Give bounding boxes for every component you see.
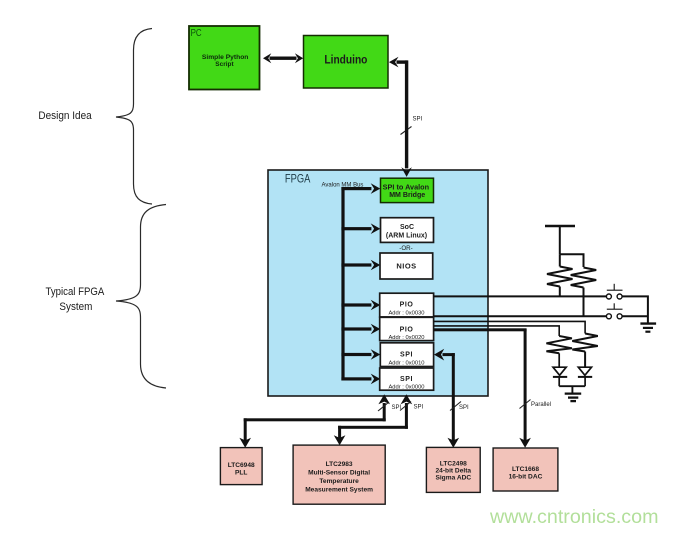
LED D2	[578, 367, 592, 386]
switch S2	[606, 303, 622, 319]
svg-text:24-bit Delta: 24-bit Delta	[436, 468, 472, 475]
svg-text:SPI: SPI	[400, 376, 413, 383]
wire PIO2 led1 line	[434, 326, 560, 336]
label SPI (ltc2498 line)	[459, 405, 469, 411]
SoC box	[381, 218, 434, 243]
bus branch to SoC	[341, 223, 380, 234]
svg-text:PIO: PIO	[400, 302, 414, 309]
svg-text:-OR-: -OR-	[399, 245, 412, 252]
svg-text:16-bit DAC: 16-bit DAC	[509, 474, 543, 481]
wire parallel PIO2 to LTC1668	[434, 328, 531, 448]
wire PIO1 bit1 line	[434, 315, 607, 317]
wire SPI2 to LTC6948	[239, 394, 390, 447]
LED D1	[553, 353, 567, 386]
switch S1	[606, 284, 622, 299]
SPI2 box Addr 0x0000	[380, 368, 434, 390]
wire PIO2 led2 line	[434, 321, 585, 333]
tick slash (ltc2983 line)	[400, 402, 411, 411]
svg-text:Measurement System: Measurement System	[305, 487, 373, 494]
svg-text:LTC2983: LTC2983	[326, 461, 353, 468]
svg-text:SPI: SPI	[459, 405, 469, 411]
svg-text:SPI: SPI	[414, 405, 424, 411]
label -OR-	[399, 245, 412, 252]
svg-text:Addr : 0x0010: Addr : 0x0010	[388, 360, 424, 366]
svg-text:Addr : 0x0020: Addr : 0x0020	[388, 335, 424, 341]
svg-text:Temperature: Temperature	[319, 478, 359, 485]
label Design Idea	[38, 110, 92, 122]
svg-text:LTC2498: LTC2498	[440, 461, 467, 468]
label Avalon MM Bus	[322, 183, 364, 189]
svg-text:System: System	[59, 301, 92, 313]
svg-text:MM Bridge: MM Bridge	[389, 191, 425, 199]
svg-text:Addr : 0x0030: Addr : 0x0030	[388, 311, 424, 317]
svg-text:LTC1668: LTC1668	[512, 466, 539, 473]
bus branch to SPI1	[341, 349, 380, 360]
watermark cntronics	[489, 506, 658, 528]
NIOS box	[380, 253, 433, 279]
Avalon bus vertical	[341, 187, 344, 381]
svg-text:Sigma ADC: Sigma ADC	[435, 475, 471, 482]
wire SPI1 to LTC2498	[434, 349, 459, 448]
tick slash (parallel line)	[520, 400, 531, 409]
svg-text:PIO: PIO	[400, 327, 414, 334]
label SPI (ltc2983 line)	[414, 405, 424, 411]
ground leds	[565, 394, 582, 402]
brace design idea	[116, 29, 152, 205]
svg-text:PLL: PLL	[235, 470, 247, 477]
PIO2 box Addr 0x0020	[380, 317, 434, 341]
wire PC-Linduino double arrow	[263, 53, 303, 63]
bus branch to bridge	[341, 183, 380, 194]
wire led join	[559, 386, 585, 393]
PC box	[189, 26, 260, 90]
bus branch to SPI2	[341, 374, 380, 385]
wire SPI1b to LTC2983	[334, 394, 412, 445]
svg-text:Typical FPGA: Typical FPGA	[46, 286, 105, 298]
svg-text:Script: Script	[215, 61, 234, 68]
wire S1 to ground rail	[622, 296, 648, 323]
resistor R2 pullup	[571, 268, 597, 317]
svg-text:Addr : 0x0000: Addr : 0x0000	[388, 384, 424, 390]
svg-text:(ARM Linux): (ARM Linux)	[386, 233, 427, 240]
resistor R1 pullup	[547, 267, 573, 297]
ground switches	[640, 324, 656, 332]
LTC2983 box	[293, 445, 385, 504]
tick slash (ltc6948 line)	[378, 402, 389, 411]
resistor R4 led	[572, 334, 598, 368]
bus branch to PIO1	[341, 300, 380, 311]
svg-text:SPI: SPI	[400, 352, 413, 359]
SPI1 box Addr 0x0010	[380, 343, 433, 367]
brace typical fpga system	[116, 205, 166, 389]
tick slash (ltc2498 line)	[450, 402, 461, 411]
wire SPI Linduino to bridge	[389, 57, 412, 177]
svg-text:Parallel: Parallel	[531, 402, 551, 408]
bus branch to PIO2	[341, 324, 380, 335]
FPGA box	[268, 170, 488, 396]
LTC2498 box	[426, 447, 480, 492]
svg-text:PC: PC	[191, 28, 202, 39]
svg-text:Simple Python: Simple Python	[202, 54, 249, 61]
label Parallel	[531, 402, 551, 408]
power rail T	[545, 226, 575, 254]
PIO1 box Addr 0x0030	[380, 293, 434, 317]
svg-text:FPGA: FPGA	[285, 173, 311, 185]
svg-text:Multi-Sensor Digital: Multi-Sensor Digital	[308, 470, 370, 477]
wire S2 to ground rail	[622, 315, 648, 317]
svg-text:Design Idea: Design Idea	[38, 110, 92, 122]
bus branch to NIOS	[341, 260, 380, 271]
resistor R3 led	[546, 336, 572, 353]
wire PIO1 bit0 line	[434, 295, 607, 297]
svg-text:www.cntronics.com: www.cntronics.com	[489, 506, 658, 528]
label Typical FPGA System	[46, 286, 105, 313]
svg-text:Linduino: Linduino	[324, 54, 367, 66]
svg-text:SoC: SoC	[400, 224, 414, 231]
svg-text:NIOS: NIOS	[396, 262, 416, 271]
svg-text:LTC6948: LTC6948	[228, 462, 255, 469]
Linduino box	[304, 36, 389, 89]
label SPI (ltc6948 line)	[392, 405, 402, 411]
tick slash (linduino line)	[401, 127, 412, 135]
LTC6948 box	[220, 448, 262, 485]
SPI to Avalon MM Bridge box	[381, 178, 434, 202]
svg-text:SPI to Avalon: SPI to Avalon	[383, 183, 429, 191]
LTC1668 box	[493, 448, 558, 491]
label SPI (linduino line)	[413, 117, 423, 123]
svg-text:SPI: SPI	[413, 117, 423, 123]
wire power branch	[560, 254, 584, 267]
